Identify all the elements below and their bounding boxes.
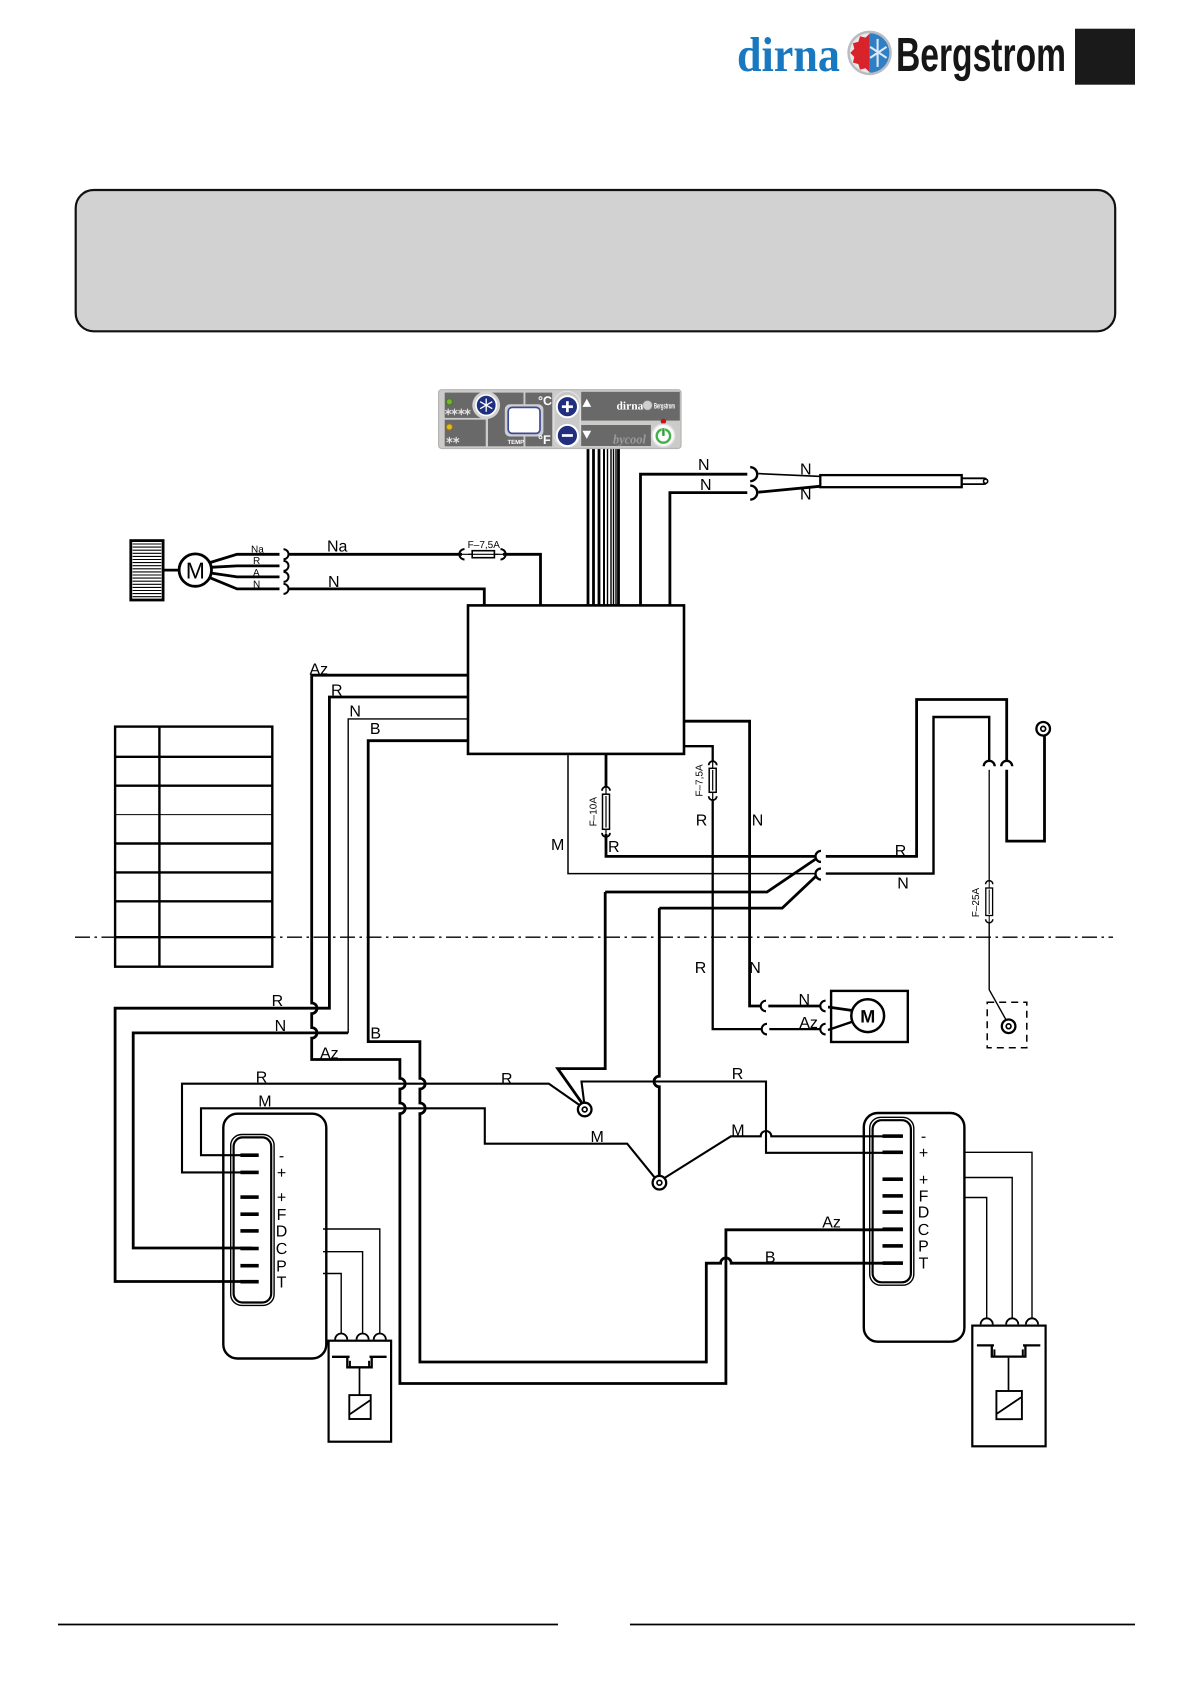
svg-text:N: N [275, 1018, 287, 1035]
svg-text:T: T [919, 1256, 929, 1273]
svg-text:R: R [256, 1070, 268, 1087]
svg-text:-: - [921, 1129, 926, 1146]
svg-text:R: R [253, 556, 260, 567]
svg-text:Az: Az [799, 1015, 818, 1032]
svg-text:N: N [749, 960, 761, 977]
svg-text:N: N [800, 487, 812, 504]
svg-text:Bergstrom: Bergstrom [896, 29, 1066, 82]
svg-text:C: C [276, 1241, 288, 1258]
svg-text:M: M [551, 837, 564, 854]
svg-text:+: + [277, 1165, 286, 1182]
svg-text:M: M [731, 1122, 744, 1139]
svg-text:R: R [696, 813, 708, 830]
svg-text:M: M [258, 1094, 271, 1111]
svg-text:F–7,5A: F–7,5A [468, 540, 501, 551]
svg-text:R: R [895, 843, 907, 860]
svg-text:B: B [370, 1026, 381, 1043]
svg-text:F: F [277, 1207, 287, 1224]
svg-text:C: C [918, 1222, 930, 1239]
svg-text:N: N [752, 813, 764, 830]
svg-text:F–7,5A: F–7,5A [695, 764, 706, 797]
svg-text:N: N [799, 992, 811, 1009]
svg-text:N: N [800, 462, 812, 479]
svg-text:N: N [328, 574, 340, 591]
svg-text:M: M [186, 557, 205, 583]
svg-text:Az: Az [822, 1215, 841, 1232]
svg-text:M: M [860, 1006, 875, 1026]
svg-text:R: R [732, 1066, 744, 1083]
svg-text:Bergstrom: Bergstrom [654, 401, 675, 410]
svg-text:D: D [276, 1224, 288, 1241]
svg-text:P: P [918, 1239, 929, 1256]
svg-text:Na: Na [327, 539, 348, 556]
svg-text:F–10A: F–10A [589, 797, 600, 827]
svg-text:N: N [253, 580, 260, 591]
svg-text:-: - [279, 1148, 284, 1165]
svg-text:F–25A: F–25A [971, 887, 982, 917]
svg-text:bycool: bycool [613, 432, 646, 447]
svg-text:Az: Az [320, 1046, 339, 1063]
svg-text:Na: Na [251, 545, 264, 556]
svg-text:R: R [501, 1071, 513, 1088]
svg-text:dirna: dirna [617, 401, 644, 413]
svg-text:°C: °C [538, 394, 552, 408]
svg-text:N: N [897, 876, 909, 893]
svg-text:N: N [698, 457, 710, 474]
svg-text:R: R [331, 682, 343, 699]
svg-text:P: P [276, 1258, 287, 1275]
svg-text:M: M [591, 1129, 604, 1146]
svg-text:D: D [918, 1205, 930, 1222]
svg-text:B: B [765, 1249, 776, 1266]
svg-text:N: N [700, 477, 712, 494]
svg-text:+: + [919, 1145, 928, 1162]
svg-text:N: N [349, 703, 361, 720]
svg-text:A: A [253, 568, 260, 579]
svg-text:B: B [370, 721, 381, 738]
svg-text:T: T [277, 1274, 287, 1291]
svg-text:+: + [919, 1172, 928, 1189]
svg-text:+: + [277, 1190, 286, 1207]
svg-text:dirna: dirna [737, 27, 840, 82]
svg-text:R: R [272, 993, 284, 1010]
svg-text:R: R [695, 960, 707, 977]
svg-text:F: F [919, 1189, 929, 1206]
svg-text:°F: °F [538, 433, 551, 447]
svg-text:R: R [608, 839, 620, 856]
svg-text:Az: Az [310, 661, 329, 678]
svg-text:TEMP: TEMP [507, 439, 524, 446]
